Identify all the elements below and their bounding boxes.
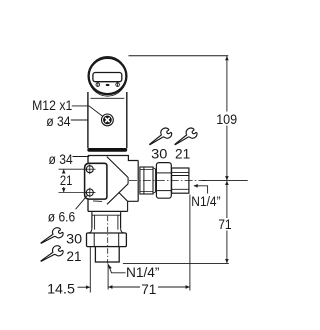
bracket hole top (86, 166, 93, 173)
side centerline extension right (202, 180, 248, 182)
head back ellipse (thin) (88, 56, 126, 96)
dim 14.5 bottom (89, 247, 91, 293)
svg-text:14.5: 14.5 (47, 281, 75, 296)
svg-text:N1/4”: N1/4” (126, 265, 160, 280)
head shoulder line (91, 97, 125, 99)
svg-text:M12 x1: M12 x1 (32, 98, 72, 113)
collar band (87, 148, 127, 152)
label N1/4 right (194, 186, 208, 194)
M12 connector screw (phillips) (101, 113, 114, 126)
svg-text:21: 21 (67, 249, 82, 264)
bracket hole bottom (86, 189, 93, 196)
dim 71 bottom (107, 264, 109, 290)
tip face line (137, 161, 139, 202)
svg-text:30: 30 (66, 232, 82, 247)
inner chamfer diagonals (107, 157, 128, 205)
dim 109 vertical (226, 56, 228, 111)
svg-text:30: 30 (151, 147, 168, 162)
dim 21 bracket (59, 168, 85, 170)
block (right-angle adapter) (88, 156, 138, 161)
svg-text:109: 109 (216, 112, 237, 127)
small line under bracket (93, 200, 102, 203)
side hex nut (156, 163, 171, 199)
left wrench icons (38, 226, 64, 248)
body (housing tube) (87, 92, 89, 148)
display window (93, 73, 122, 82)
side port washer (140, 167, 153, 194)
dim 71 right vertical (226, 181, 228, 218)
label N1/4 bottom (109, 267, 125, 273)
button screw left (96, 83, 100, 87)
side centerline (129, 180, 208, 182)
svg-text:71: 71 (218, 217, 232, 232)
svg-text:ø 6.6: ø 6.6 (48, 209, 76, 224)
bottom neck (91, 212, 93, 228)
svg-text:21: 21 (175, 147, 190, 162)
top extension line (129, 55, 229, 57)
mounting bracket (85, 163, 107, 199)
block foot under washer (119, 192, 139, 211)
bottom centerline (107, 216, 109, 264)
washer taper (153, 168, 156, 194)
right wrench icons (147, 126, 173, 149)
svg-text:21: 21 (60, 173, 73, 188)
svg-text:ø 34: ø 34 (46, 114, 71, 129)
svg-text:ø 34: ø 34 (49, 152, 73, 167)
oval indicator (106, 84, 110, 86)
bottom thread (95, 247, 119, 262)
svg-text:71: 71 (141, 282, 156, 297)
svg-text:N1/4”: N1/4” (191, 194, 221, 209)
head front ellipse (thick) (89, 58, 127, 94)
bottom extension line (right 71) (123, 262, 229, 264)
bottom hex nut (87, 233, 127, 247)
side thread (172, 168, 189, 193)
button screw right (116, 83, 120, 87)
